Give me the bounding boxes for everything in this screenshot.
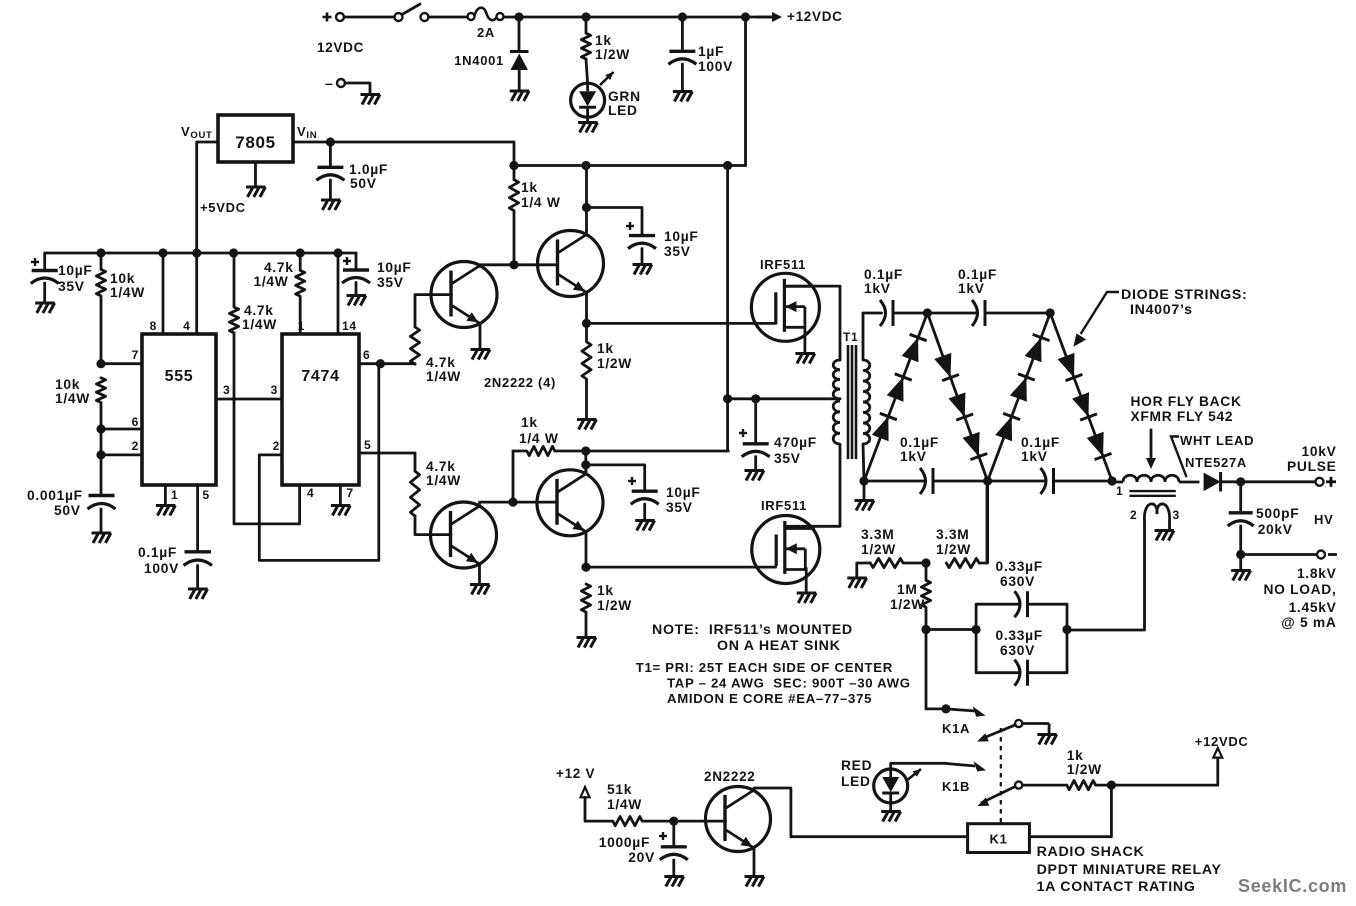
svg-text:1000µF: 1000µF bbox=[599, 835, 650, 850]
label VOUT bbox=[181, 124, 213, 141]
transformer T1 core bbox=[848, 345, 856, 459]
node relay feed bbox=[1107, 781, 1116, 790]
svg-text:555: 555 bbox=[165, 368, 194, 385]
resistor R 4.7k b bbox=[296, 253, 305, 334]
svg-text:10kV: 10kV bbox=[1301, 444, 1336, 459]
svg-text:2: 2 bbox=[132, 439, 139, 453]
terminal HV+ bbox=[1316, 478, 1324, 486]
node gate upper bbox=[582, 319, 591, 328]
wire mult top 1 bbox=[893, 312, 927, 315]
svg-text:+12VDC: +12VDC bbox=[787, 9, 843, 24]
node rail-C4 bbox=[678, 12, 687, 21]
ground D1 bbox=[510, 91, 530, 101]
wire relay coil left bbox=[791, 835, 968, 838]
wire 7474 pin14 bbox=[337, 253, 340, 334]
capacitor C 0.1uF 1kV c bbox=[920, 468, 933, 494]
wire mult bottom 3 bbox=[1054, 480, 1113, 483]
wire 470 gnd bbox=[754, 457, 757, 471]
svg-text:35V: 35V bbox=[666, 500, 693, 515]
svg-text:NO LOAD,: NO LOAD, bbox=[1263, 582, 1336, 597]
wire center tap bbox=[728, 397, 840, 400]
svg-text:1k: 1k bbox=[595, 33, 612, 48]
diode string D14-16 1N4007 bbox=[1050, 313, 1112, 481]
wire to 470 node bbox=[586, 450, 729, 453]
svg-text:+5VDC: +5VDC bbox=[200, 200, 246, 215]
label 0.1uF 1kV d bbox=[1021, 435, 1060, 464]
svg-text:14: 14 bbox=[342, 319, 357, 333]
node HV out bbox=[1236, 477, 1245, 486]
label +12 V bbox=[556, 766, 595, 781]
svg-text:0.33µF: 0.33µF bbox=[996, 559, 1043, 574]
pin 6 bbox=[132, 415, 139, 429]
wire C4 top bbox=[681, 17, 684, 51]
svg-text:PULSE: PULSE bbox=[1287, 459, 1337, 474]
wire R to LED bbox=[586, 59, 588, 84]
terminal - input bbox=[337, 79, 345, 87]
label 0.1uF 1kV a bbox=[864, 267, 903, 296]
wire 0.1uF gnd bbox=[196, 566, 199, 589]
resistor R 1M bbox=[921, 563, 930, 630]
svg-text:LED: LED bbox=[841, 774, 871, 789]
wire +12V down bbox=[585, 797, 613, 821]
svg-text:HV: HV bbox=[1314, 512, 1333, 527]
node Q2C-10uF bbox=[582, 203, 591, 212]
pin 3 of 7474 bbox=[271, 383, 278, 397]
ground Q1 bbox=[471, 350, 491, 360]
capacitor C 10uF 35V right bbox=[342, 270, 370, 283]
label WHT LEAD bbox=[1180, 433, 1254, 448]
svg-text:630V: 630V bbox=[1000, 574, 1035, 589]
wire 4.7k a to pin4 7474 bbox=[234, 333, 300, 524]
svg-text:50V: 50V bbox=[350, 176, 377, 191]
resistor R 4.7k a bbox=[229, 253, 238, 333]
fuse 2A bbox=[468, 8, 504, 20]
svg-text:4.7k: 4.7k bbox=[244, 303, 274, 318]
svg-text:ON A HEAT SINK: ON A HEAT SINK bbox=[717, 638, 841, 654]
ground K1A bbox=[1037, 735, 1057, 745]
polarity + 10uF low bbox=[628, 477, 636, 485]
label 1k 1/2W up bbox=[597, 341, 632, 371]
svg-text:WHT LEAD: WHT LEAD bbox=[1180, 433, 1254, 448]
svg-text:3.3M: 3.3M bbox=[861, 527, 894, 542]
transistor Q4 2N2222 bbox=[537, 470, 603, 536]
svg-text:1.8kV: 1.8kV bbox=[1297, 566, 1337, 581]
ground Q3 bbox=[470, 585, 490, 595]
inductor T1 secondary bbox=[863, 360, 870, 444]
label 4.7k 1/4W a bbox=[242, 303, 277, 332]
svg-text:@ 5 mA: @ 5 mA bbox=[1281, 615, 1336, 630]
label 12VDC bbox=[317, 40, 364, 55]
wire pin5 bbox=[359, 452, 415, 455]
label 10kV PULSE bbox=[1287, 444, 1337, 474]
svg-text:1k: 1k bbox=[1067, 748, 1084, 763]
pin 2 bbox=[132, 439, 139, 453]
ground secondary bbox=[855, 501, 875, 511]
wire Q4C seg bbox=[584, 451, 587, 472]
svg-text:8: 8 bbox=[150, 319, 157, 333]
svg-text:1: 1 bbox=[298, 319, 305, 333]
wire Q3 emitter bbox=[478, 564, 481, 584]
resistor R 1k 1/2W relay bbox=[1067, 781, 1112, 790]
svg-text:2: 2 bbox=[273, 439, 280, 453]
node peak1 bbox=[923, 308, 932, 317]
pin 1 bbox=[171, 488, 178, 502]
wire minus to ground bbox=[345, 83, 370, 94]
label 500pF 20kV bbox=[1256, 506, 1299, 537]
wire 7805 gnd bbox=[254, 162, 257, 187]
capacitor C 10uF 35V left bbox=[31, 271, 59, 284]
transistor Q3 2N2222 bbox=[431, 502, 497, 568]
svg-text:1k: 1k bbox=[521, 180, 538, 195]
ground 0.001uF bbox=[92, 533, 112, 543]
node rail-10k bbox=[96, 248, 105, 257]
label 1k 1/2W bbox=[595, 33, 630, 62]
label +12VDC relay bbox=[1195, 734, 1249, 749]
label 1000uF 20V bbox=[599, 835, 655, 865]
label 2A bbox=[477, 25, 495, 40]
svg-text:5: 5 bbox=[364, 438, 371, 452]
resistor R 1k 1/2W (LED) bbox=[581, 33, 590, 59]
svg-text:LED: LED bbox=[608, 103, 638, 118]
wire to +12VDC arrow bbox=[1111, 758, 1217, 786]
label 1k 1/4W upper bbox=[521, 180, 561, 210]
pin 5 of 7474 bbox=[364, 438, 371, 452]
node VIN-C5 bbox=[326, 137, 335, 146]
relay coil K1 bbox=[968, 824, 1030, 853]
wire caps bottom branch bbox=[976, 630, 1019, 673]
wire caps top branch bbox=[976, 604, 1019, 629]
svg-text:1.0µF: 1.0µF bbox=[349, 162, 388, 177]
svg-text:35V: 35V bbox=[377, 275, 404, 290]
pin 5 bbox=[203, 488, 210, 502]
capacitor C 0.1uF 100V bbox=[184, 552, 213, 566]
pin 3 of 555 bbox=[223, 383, 230, 397]
svg-text:4.7k: 4.7k bbox=[264, 260, 294, 275]
note IRF511 heat sink bbox=[652, 622, 853, 654]
svg-text:1/4W: 1/4W bbox=[55, 391, 90, 406]
svg-text:35V: 35V bbox=[664, 244, 691, 259]
svg-text:1/4W: 1/4W bbox=[426, 473, 461, 488]
node pin2 bbox=[96, 450, 105, 459]
node rail2 start bbox=[509, 161, 518, 170]
svg-text:20V: 20V bbox=[628, 850, 655, 865]
label 0.1uF 1kV c bbox=[900, 435, 939, 464]
capacitor C 500pF 20kV bbox=[1228, 513, 1254, 526]
wire K1B to 1k bbox=[1022, 784, 1067, 787]
pin 6 of 7474 bbox=[363, 348, 370, 362]
MOSFET IRF511 upper bbox=[751, 273, 819, 341]
wire caps bottom branch b bbox=[1028, 630, 1068, 673]
label 0.001uF 50V bbox=[27, 488, 83, 518]
polarity + right 10uF bbox=[343, 257, 351, 265]
svg-text:K1B: K1B bbox=[942, 779, 970, 794]
svg-text:0.1µF: 0.1µF bbox=[958, 267, 997, 282]
label HV bbox=[1314, 512, 1333, 527]
svg-text:20kV: 20kV bbox=[1258, 522, 1293, 537]
MOSFET IRF511 lower bbox=[752, 516, 820, 584]
svg-text:1k: 1k bbox=[521, 415, 538, 430]
inductor flyback secondary bbox=[1144, 504, 1169, 521]
net arrow +12V bbox=[581, 787, 590, 797]
wire 555 pin3 to 7474 pin3 bbox=[216, 398, 282, 401]
svg-text:AMIDON E CORE #EA–77–375: AMIDON E CORE #EA–77–375 bbox=[667, 691, 872, 706]
svg-text:10µF: 10µF bbox=[377, 260, 412, 275]
wire 1000uF gnd bbox=[672, 860, 675, 876]
svg-text:SeekIC.com: SeekIC.com bbox=[1238, 876, 1347, 896]
svg-text:1/2W: 1/2W bbox=[1067, 762, 1102, 777]
svg-text:IRF511: IRF511 bbox=[761, 498, 807, 513]
wire fly sec right gnd bbox=[1168, 521, 1171, 530]
wire 10uF low gnd bbox=[643, 504, 646, 520]
capacitor C 0.1uF 1kV a bbox=[880, 300, 893, 326]
pin 7 of 7474 bbox=[347, 486, 354, 500]
wire pin7 bbox=[101, 362, 142, 365]
ground 555 pin1 bbox=[156, 506, 176, 516]
svg-text:1k: 1k bbox=[597, 341, 614, 356]
wire minus out bbox=[1241, 553, 1317, 556]
wire LED to ground bbox=[586, 117, 589, 122]
ground 10uF upper bbox=[633, 265, 653, 275]
svg-text:2N2222: 2N2222 bbox=[704, 769, 756, 784]
wire 1000uF lead bbox=[672, 821, 675, 847]
wire top rail bbox=[504, 16, 772, 19]
label 10uF 35V low bbox=[666, 485, 701, 515]
node 470-tap bbox=[723, 394, 732, 403]
wire rail2 bbox=[514, 164, 746, 167]
LED GRN bbox=[571, 72, 614, 117]
svg-text:1kV: 1kV bbox=[900, 449, 927, 464]
pin 1 flyback bbox=[1116, 484, 1123, 498]
terminal + input bbox=[336, 13, 344, 21]
wire relay coil right bbox=[1029, 785, 1111, 837]
label 0.1uF 1kV b bbox=[958, 267, 997, 296]
wire 4.7k d to Q3 base bbox=[415, 516, 451, 535]
svg-text:6: 6 bbox=[363, 348, 370, 362]
ground RED LED bbox=[881, 812, 901, 822]
wire mult bottom 2 bbox=[933, 480, 1046, 483]
wire 7474 pin7 bbox=[339, 485, 342, 505]
svg-text:1µF: 1µF bbox=[698, 44, 724, 59]
node mult left bbox=[859, 476, 868, 485]
node pin7 bbox=[96, 359, 105, 368]
wire base Q5 bbox=[674, 820, 726, 823]
wire drain upper bbox=[784, 286, 840, 360]
svg-text:2N2222 (4): 2N2222 (4) bbox=[484, 375, 556, 390]
wire 3.3M b right up bbox=[986, 481, 989, 563]
svg-text:6: 6 bbox=[132, 415, 139, 429]
ground Q5 bbox=[745, 877, 765, 887]
net arrow +12VDC relay bbox=[1213, 748, 1222, 758]
wire Q2 emitter bbox=[585, 293, 588, 324]
node HV minus bbox=[1236, 550, 1245, 559]
label 1M 1/2W bbox=[890, 582, 925, 612]
label 1uF 100V bbox=[698, 44, 733, 74]
transistor Q5 2N2222 bbox=[706, 787, 771, 852]
pin 14 bbox=[342, 319, 357, 333]
svg-text:1: 1 bbox=[171, 488, 178, 502]
node 470 cap bbox=[751, 394, 760, 403]
ground flyback sec bbox=[1155, 531, 1175, 541]
svg-text:1N4001: 1N4001 bbox=[454, 53, 504, 68]
label 10uF 35V up bbox=[664, 229, 699, 259]
ground 3.3M a bbox=[847, 578, 867, 588]
svg-text:3.3M: 3.3M bbox=[936, 527, 969, 542]
svg-text:4.7k: 4.7k bbox=[426, 355, 456, 370]
wire to C 0.001 bbox=[100, 455, 103, 496]
svg-text:1/2W: 1/2W bbox=[936, 542, 971, 557]
wire mult top 3 bbox=[985, 312, 1050, 315]
label 3.3M b bbox=[936, 527, 971, 557]
wire left cap lead bbox=[43, 253, 46, 271]
ground IRF511 upper bbox=[795, 354, 815, 364]
svg-text:1/4 W: 1/4 W bbox=[519, 431, 559, 446]
wire Q4 emitter bbox=[585, 532, 588, 567]
node - 12VDC input minus bbox=[325, 75, 334, 91]
wire gate lower bbox=[586, 566, 776, 569]
wire pin6 bbox=[359, 362, 415, 365]
node pin6 bbox=[96, 424, 105, 433]
wire input to switch bbox=[344, 16, 395, 19]
label 2N2222(4) bbox=[484, 375, 556, 390]
svg-text:TAP – 24 AWG SEC: 900T –30 AW: TAP – 24 AWG SEC: 900T –30 AWG bbox=[667, 676, 911, 691]
svg-text:4: 4 bbox=[307, 486, 314, 500]
pin 4 bbox=[183, 319, 190, 333]
svg-text:1/4W: 1/4W bbox=[254, 274, 289, 289]
wire 10uF lower branch bbox=[586, 465, 645, 491]
label 0.33uF b bbox=[996, 628, 1043, 658]
svg-text:1kV: 1kV bbox=[864, 281, 891, 296]
label 1k 1/2W relay bbox=[1067, 748, 1102, 777]
svg-text:1/2W: 1/2W bbox=[890, 597, 925, 612]
label 4.7k 1/4W d bbox=[426, 459, 461, 488]
wire +12 feed down bbox=[744, 17, 747, 166]
svg-text:3: 3 bbox=[271, 383, 278, 397]
note T1 winding bbox=[636, 660, 911, 706]
wire 555 pin8 bbox=[162, 253, 165, 334]
ground right 10uF bbox=[347, 296, 367, 306]
node mult center bbox=[983, 476, 992, 485]
svg-text:0.33µF: 0.33µF bbox=[996, 628, 1043, 643]
svg-text:3: 3 bbox=[1173, 508, 1180, 522]
node rail-pin14 bbox=[333, 248, 342, 257]
node 1k-470 wire bbox=[581, 446, 590, 455]
pin 7 bbox=[132, 348, 139, 362]
ground 1k upper bbox=[577, 420, 597, 430]
wire 3.3M a left bbox=[857, 563, 871, 578]
wire Q1 emitter bbox=[479, 324, 482, 350]
label 10k 1/4W a bbox=[110, 271, 145, 300]
label DIODE STRINGS bbox=[1121, 287, 1247, 318]
leader diode strings bbox=[1073, 292, 1119, 347]
pin 1 of 7474 bbox=[298, 319, 305, 333]
node rail-4k7b bbox=[296, 248, 305, 257]
wire VIN rail bbox=[293, 141, 514, 144]
watermark SeekIC.com bbox=[1238, 876, 1347, 896]
svg-text:10µF: 10µF bbox=[58, 263, 93, 278]
svg-text:35V: 35V bbox=[58, 279, 85, 294]
wire diode out bbox=[1221, 480, 1316, 483]
regulator U3 7805 bbox=[218, 115, 293, 162]
label 1.0uF 50V bbox=[349, 162, 388, 191]
svg-text:1/4W: 1/4W bbox=[242, 317, 277, 332]
svg-text:500pF: 500pF bbox=[1256, 506, 1299, 521]
capacitor C 1000uF 20V bbox=[660, 847, 688, 860]
ground IRF511 lower bbox=[797, 593, 817, 603]
capacitor C 0.1uF 1kV d bbox=[1041, 468, 1054, 494]
resistor R 1k 1/2W upper bbox=[582, 323, 591, 419]
capacitor C 10uF 35V lower bbox=[631, 491, 659, 504]
label HOR FLY BACK bbox=[1131, 394, 1242, 424]
svg-text:RED: RED bbox=[841, 758, 872, 773]
node Q4C bbox=[581, 460, 590, 469]
resistor R 10k b bbox=[96, 378, 105, 429]
node caps left bbox=[972, 625, 981, 634]
svg-text:K1A: K1A bbox=[942, 721, 970, 736]
label 0.1uF 100V bbox=[138, 545, 179, 576]
svg-text:7: 7 bbox=[132, 348, 139, 362]
label 1k 1/2W low bbox=[597, 583, 632, 613]
svg-text:–: – bbox=[325, 75, 334, 91]
wire 4.7k c top to Q1 base bbox=[415, 295, 452, 327]
wire pin6-pin2 seg bbox=[100, 429, 103, 455]
ground input bbox=[361, 95, 381, 105]
diode D NTE527A bbox=[1204, 472, 1221, 492]
wire C4 to ground bbox=[681, 64, 684, 91]
wire to caps bbox=[926, 628, 976, 631]
label 10uF 35V right bbox=[377, 260, 412, 290]
switch S1 bbox=[395, 4, 429, 22]
ground 1k lower bbox=[577, 638, 597, 648]
wire 10uF branch bbox=[587, 208, 643, 236]
svg-text:1/4W: 1/4W bbox=[110, 285, 145, 300]
svg-text:NTE527A: NTE527A bbox=[1185, 455, 1247, 470]
svg-text:35V: 35V bbox=[774, 451, 801, 466]
terminal HV- bbox=[1317, 551, 1325, 559]
label 4.7k 1/4W b bbox=[254, 260, 294, 289]
svg-text:50V: 50V bbox=[54, 503, 81, 518]
wire Q1 collector bbox=[480, 265, 558, 267]
capacitor C 0.33uF 630V b bbox=[1015, 660, 1028, 686]
node rail2-Q2 bbox=[581, 161, 590, 170]
svg-text:1kV: 1kV bbox=[1021, 449, 1048, 464]
svg-text:2: 2 bbox=[1130, 508, 1137, 522]
node HV plus bbox=[1326, 477, 1336, 487]
svg-text:7: 7 bbox=[347, 486, 354, 500]
svg-text:XFMR FLY 542: XFMR FLY 542 bbox=[1131, 409, 1234, 424]
wire source upper gnd bbox=[804, 327, 807, 353]
wire right cap lead bbox=[355, 253, 358, 270]
label 3.3M a bbox=[861, 527, 896, 557]
IC U1 555 bbox=[142, 334, 216, 485]
svg-text:T1= PRI: 25T EACH SIDE OF CENT: T1= PRI: 25T EACH SIDE OF CENTER bbox=[636, 660, 893, 675]
wire out gnd bbox=[1239, 555, 1242, 571]
label 1k 1/4W mid bbox=[519, 415, 559, 446]
svg-text:4.7k: 4.7k bbox=[426, 459, 456, 474]
svg-text:5: 5 bbox=[203, 488, 210, 502]
wire 500pF bottom bbox=[1239, 526, 1242, 555]
transistor Q1 2N2222 bbox=[431, 262, 497, 328]
pin 8 bbox=[150, 319, 157, 333]
wire +5V rail bbox=[45, 252, 356, 255]
svg-text:GRN: GRN bbox=[608, 89, 641, 104]
inductor T1 primary bbox=[833, 360, 840, 444]
wire caps top branch b bbox=[1028, 604, 1068, 629]
wire C5 to ground bbox=[329, 180, 332, 200]
wire Q2 collector bbox=[585, 166, 588, 235]
wire pin5 to 4.7k d bbox=[414, 453, 417, 471]
wire drain lower bbox=[785, 444, 840, 526]
polarity + left 10uF bbox=[31, 258, 39, 266]
